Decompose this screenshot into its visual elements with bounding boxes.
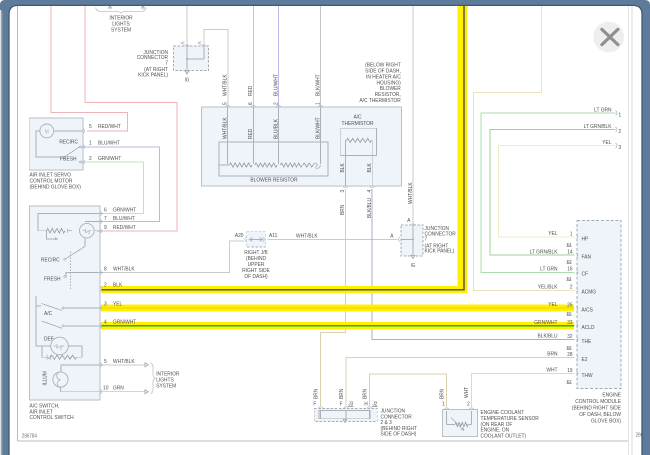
svg-text:7: 7 — [104, 216, 107, 222]
svg-text:BRN: BRN — [340, 205, 346, 215]
svg-text:F: F — [340, 401, 343, 407]
svg-text:E2: E2 — [567, 379, 572, 384]
svg-text:KICK PANEL): KICK PANEL) — [425, 248, 455, 254]
svg-text:2: 2 — [570, 284, 573, 290]
svg-text:5: 5 — [104, 358, 107, 364]
svg-text:LT GRN: LT GRN — [540, 266, 558, 272]
svg-text:BRN: BRN — [547, 351, 557, 357]
svg-text:BLU/WHT: BLU/WHT — [98, 140, 121, 146]
svg-text:COOLANT OUTLET): COOLANT OUTLET) — [481, 433, 527, 439]
svg-text:ILLUM: ILLUM — [42, 371, 48, 386]
svg-text:WHT/BLK: WHT/BLK — [113, 266, 135, 272]
svg-text:BLU/WHT: BLU/WHT — [113, 216, 136, 222]
svg-text:1: 1 — [89, 140, 92, 146]
svg-text:A: A — [407, 217, 411, 223]
svg-text:ACMG: ACMG — [582, 289, 597, 295]
svg-text:(BEHIND GLOVE BOX): (BEHIND GLOVE BOX) — [30, 184, 82, 190]
svg-text:BLK/WHT: BLK/WHT — [315, 74, 321, 96]
svg-text:2: 2 — [619, 129, 622, 135]
svg-text:3: 3 — [619, 145, 622, 151]
svg-text:BLOWER RESISTOR: BLOWER RESISTOR — [250, 177, 297, 183]
svg-text:A/C: A/C — [44, 311, 52, 317]
svg-text:BLK/WHT: BLK/WHT — [315, 117, 321, 139]
svg-text:RED: RED — [248, 86, 254, 96]
svg-text:CONTROL SWITCH: CONTROL SWITCH — [30, 415, 74, 421]
svg-text:BLK: BLK — [366, 163, 372, 173]
svg-text:RECIRC: RECIRC — [41, 257, 60, 263]
svg-text:BRN: BRN — [362, 389, 368, 399]
svg-text:BRN: BRN — [338, 389, 344, 399]
svg-text:E5: E5 — [567, 311, 572, 316]
svg-text:2: 2 — [89, 155, 92, 161]
svg-text:YEL: YEL — [548, 302, 557, 308]
svg-text:RED/WHT: RED/WHT — [98, 124, 121, 130]
svg-text:WHT/BLK: WHT/BLK — [113, 358, 135, 364]
svg-text:SYSTEM: SYSTEM — [156, 383, 176, 389]
svg-text:F: F — [313, 401, 316, 407]
svg-text:SYSTEM: SYSTEM — [111, 27, 131, 33]
svg-text:GRN/WHT: GRN/WHT — [534, 320, 558, 326]
svg-text:KICK PANEL): KICK PANEL) — [138, 72, 168, 78]
svg-text:5: 5 — [89, 124, 92, 130]
svg-text:BLK/BLU: BLK/BLU — [366, 198, 372, 218]
svg-text:33: 33 — [567, 320, 572, 326]
svg-text:3: 3 — [104, 301, 107, 307]
svg-text:OF DASH): OF DASH) — [244, 273, 267, 279]
svg-text:YEL: YEL — [548, 231, 557, 237]
svg-text:BLU/BLK: BLU/BLK — [273, 119, 279, 139]
svg-text:WHT: WHT — [546, 367, 558, 373]
svg-text:LT GRN: LT GRN — [594, 107, 612, 113]
svg-text:286784: 286784 — [22, 433, 37, 439]
svg-text:RED: RED — [248, 129, 254, 139]
svg-text:19: 19 — [567, 367, 572, 373]
svg-text:A20: A20 — [235, 233, 244, 239]
svg-text:4: 4 — [366, 190, 372, 193]
svg-text:H: H — [364, 401, 368, 407]
svg-text:YEL: YEL — [602, 140, 611, 146]
svg-text:2: 2 — [104, 282, 107, 288]
svg-text:A: A — [390, 233, 394, 239]
svg-text:ACLD: ACLD — [582, 325, 595, 331]
svg-text:IG: IG — [411, 263, 416, 269]
svg-text:WHT/BLK: WHT/BLK — [222, 74, 228, 96]
svg-text:GLOVE BOX): GLOVE BOX) — [591, 418, 621, 424]
svg-text:CF: CF — [582, 271, 589, 277]
svg-text:3: 3 — [340, 190, 346, 193]
svg-text:16: 16 — [567, 266, 572, 272]
svg-text:FAN: FAN — [582, 254, 592, 260]
svg-text:HP: HP — [582, 236, 589, 242]
svg-text:RED/WHT: RED/WHT — [113, 225, 136, 231]
svg-text:5: 5 — [222, 102, 228, 105]
svg-text:FRESH: FRESH — [60, 156, 77, 162]
svg-text:J2: J2 — [372, 401, 377, 407]
svg-text:E4: E4 — [567, 242, 572, 247]
svg-text:GRN/WHT: GRN/WHT — [113, 207, 137, 213]
svg-text:7: 7 — [425, 236, 428, 242]
svg-text:THERMISTOR: THERMISTOR — [341, 120, 373, 126]
svg-text:6: 6 — [248, 102, 254, 105]
svg-text:1: 1 — [442, 401, 445, 407]
svg-text:WHT/BLK: WHT/BLK — [296, 233, 318, 239]
svg-text:E6: E6 — [567, 345, 572, 350]
svg-text:THW: THW — [582, 372, 594, 378]
svg-text:BLK/BLU: BLK/BLU — [538, 333, 558, 339]
svg-text:26: 26 — [567, 302, 572, 308]
svg-text:THE: THE — [582, 339, 592, 345]
svg-text:BLU/WHT: BLU/WHT — [273, 73, 279, 96]
svg-text:GRN/WHT: GRN/WHT — [98, 155, 122, 161]
svg-text:28: 28 — [567, 352, 572, 358]
svg-text:1: 1 — [570, 231, 573, 237]
svg-text:CONNECTOR: CONNECTOR — [137, 55, 168, 61]
svg-text:GRN: GRN — [113, 385, 124, 391]
svg-text:WHT: WHT — [464, 386, 470, 398]
svg-text:FRESH: FRESH — [44, 276, 61, 282]
svg-text:14: 14 — [567, 249, 572, 255]
svg-text:BLK: BLK — [340, 163, 346, 173]
svg-text:32: 32 — [567, 334, 572, 340]
svg-text:BRN: BRN — [313, 389, 319, 399]
svg-text:2: 2 — [467, 401, 470, 407]
svg-text:E4: E4 — [567, 276, 572, 281]
svg-text:DEF: DEF — [44, 336, 54, 342]
svg-text:LT GRN/BLK: LT GRN/BLK — [584, 124, 612, 130]
svg-text:E3: E3 — [567, 259, 572, 264]
svg-text:RECIRC: RECIRC — [59, 139, 78, 145]
svg-text:LT GRN/BLK: LT GRN/BLK — [530, 249, 558, 255]
svg-text:YEL/BLK: YEL/BLK — [538, 284, 558, 290]
svg-text:10: 10 — [103, 385, 108, 391]
svg-text:A/CS: A/CS — [582, 307, 594, 313]
svg-text:9: 9 — [104, 225, 107, 231]
svg-text:BRN: BRN — [439, 389, 445, 399]
svg-text:YEL: YEL — [113, 301, 122, 307]
svg-text:WHT/BLK: WHT/BLK — [222, 117, 228, 139]
svg-text:GRN/WHT: GRN/WHT — [113, 319, 137, 325]
svg-text:J3: J3 — [348, 401, 353, 407]
svg-text:4: 4 — [104, 319, 107, 325]
svg-text:A11: A11 — [269, 233, 277, 239]
svg-text:2: 2 — [273, 102, 279, 105]
svg-text:6: 6 — [104, 207, 107, 213]
svg-text:8: 8 — [104, 266, 107, 272]
svg-text:BLK: BLK — [113, 282, 123, 288]
svg-text:7: 7 — [165, 60, 168, 66]
svg-text:1: 1 — [315, 102, 321, 105]
svg-text:CONNECTOR: CONNECTOR — [425, 231, 456, 237]
svg-text:WHT/BLK: WHT/BLK — [407, 182, 413, 204]
svg-text:SIDE OF DASH): SIDE OF DASH) — [381, 431, 417, 437]
svg-text:A/C THERMISTOR: A/C THERMISTOR — [359, 98, 401, 104]
svg-text:1: 1 — [619, 112, 622, 118]
svg-text:M: M — [45, 129, 50, 135]
svg-text:E2: E2 — [582, 357, 588, 363]
svg-text:IG: IG — [185, 77, 190, 83]
